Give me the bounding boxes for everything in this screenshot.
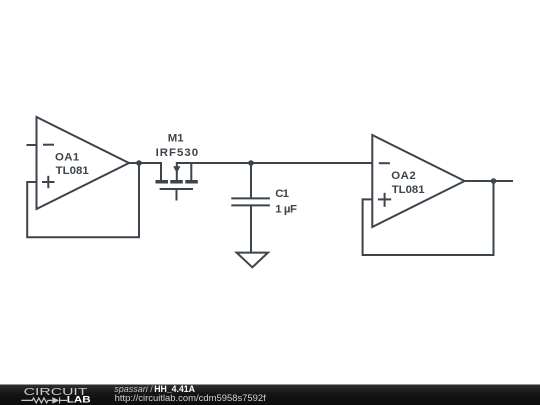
svg-text:C1: C1 (275, 188, 289, 200)
svg-text:M1: M1 (168, 133, 184, 145)
svg-text:1 µF: 1 µF (275, 204, 297, 216)
svg-text:LAB: LAB (67, 395, 91, 405)
svg-text:OA1: OA1 (55, 151, 80, 163)
svg-text:TL081: TL081 (56, 165, 90, 177)
svg-text:IRF530: IRF530 (156, 147, 199, 159)
svg-text:OA2: OA2 (391, 170, 416, 182)
svg-text:TL081: TL081 (392, 184, 426, 196)
svg-text:http://circuitlab.com/cdm5958s: http://circuitlab.com/cdm5958s7592f (115, 393, 267, 403)
